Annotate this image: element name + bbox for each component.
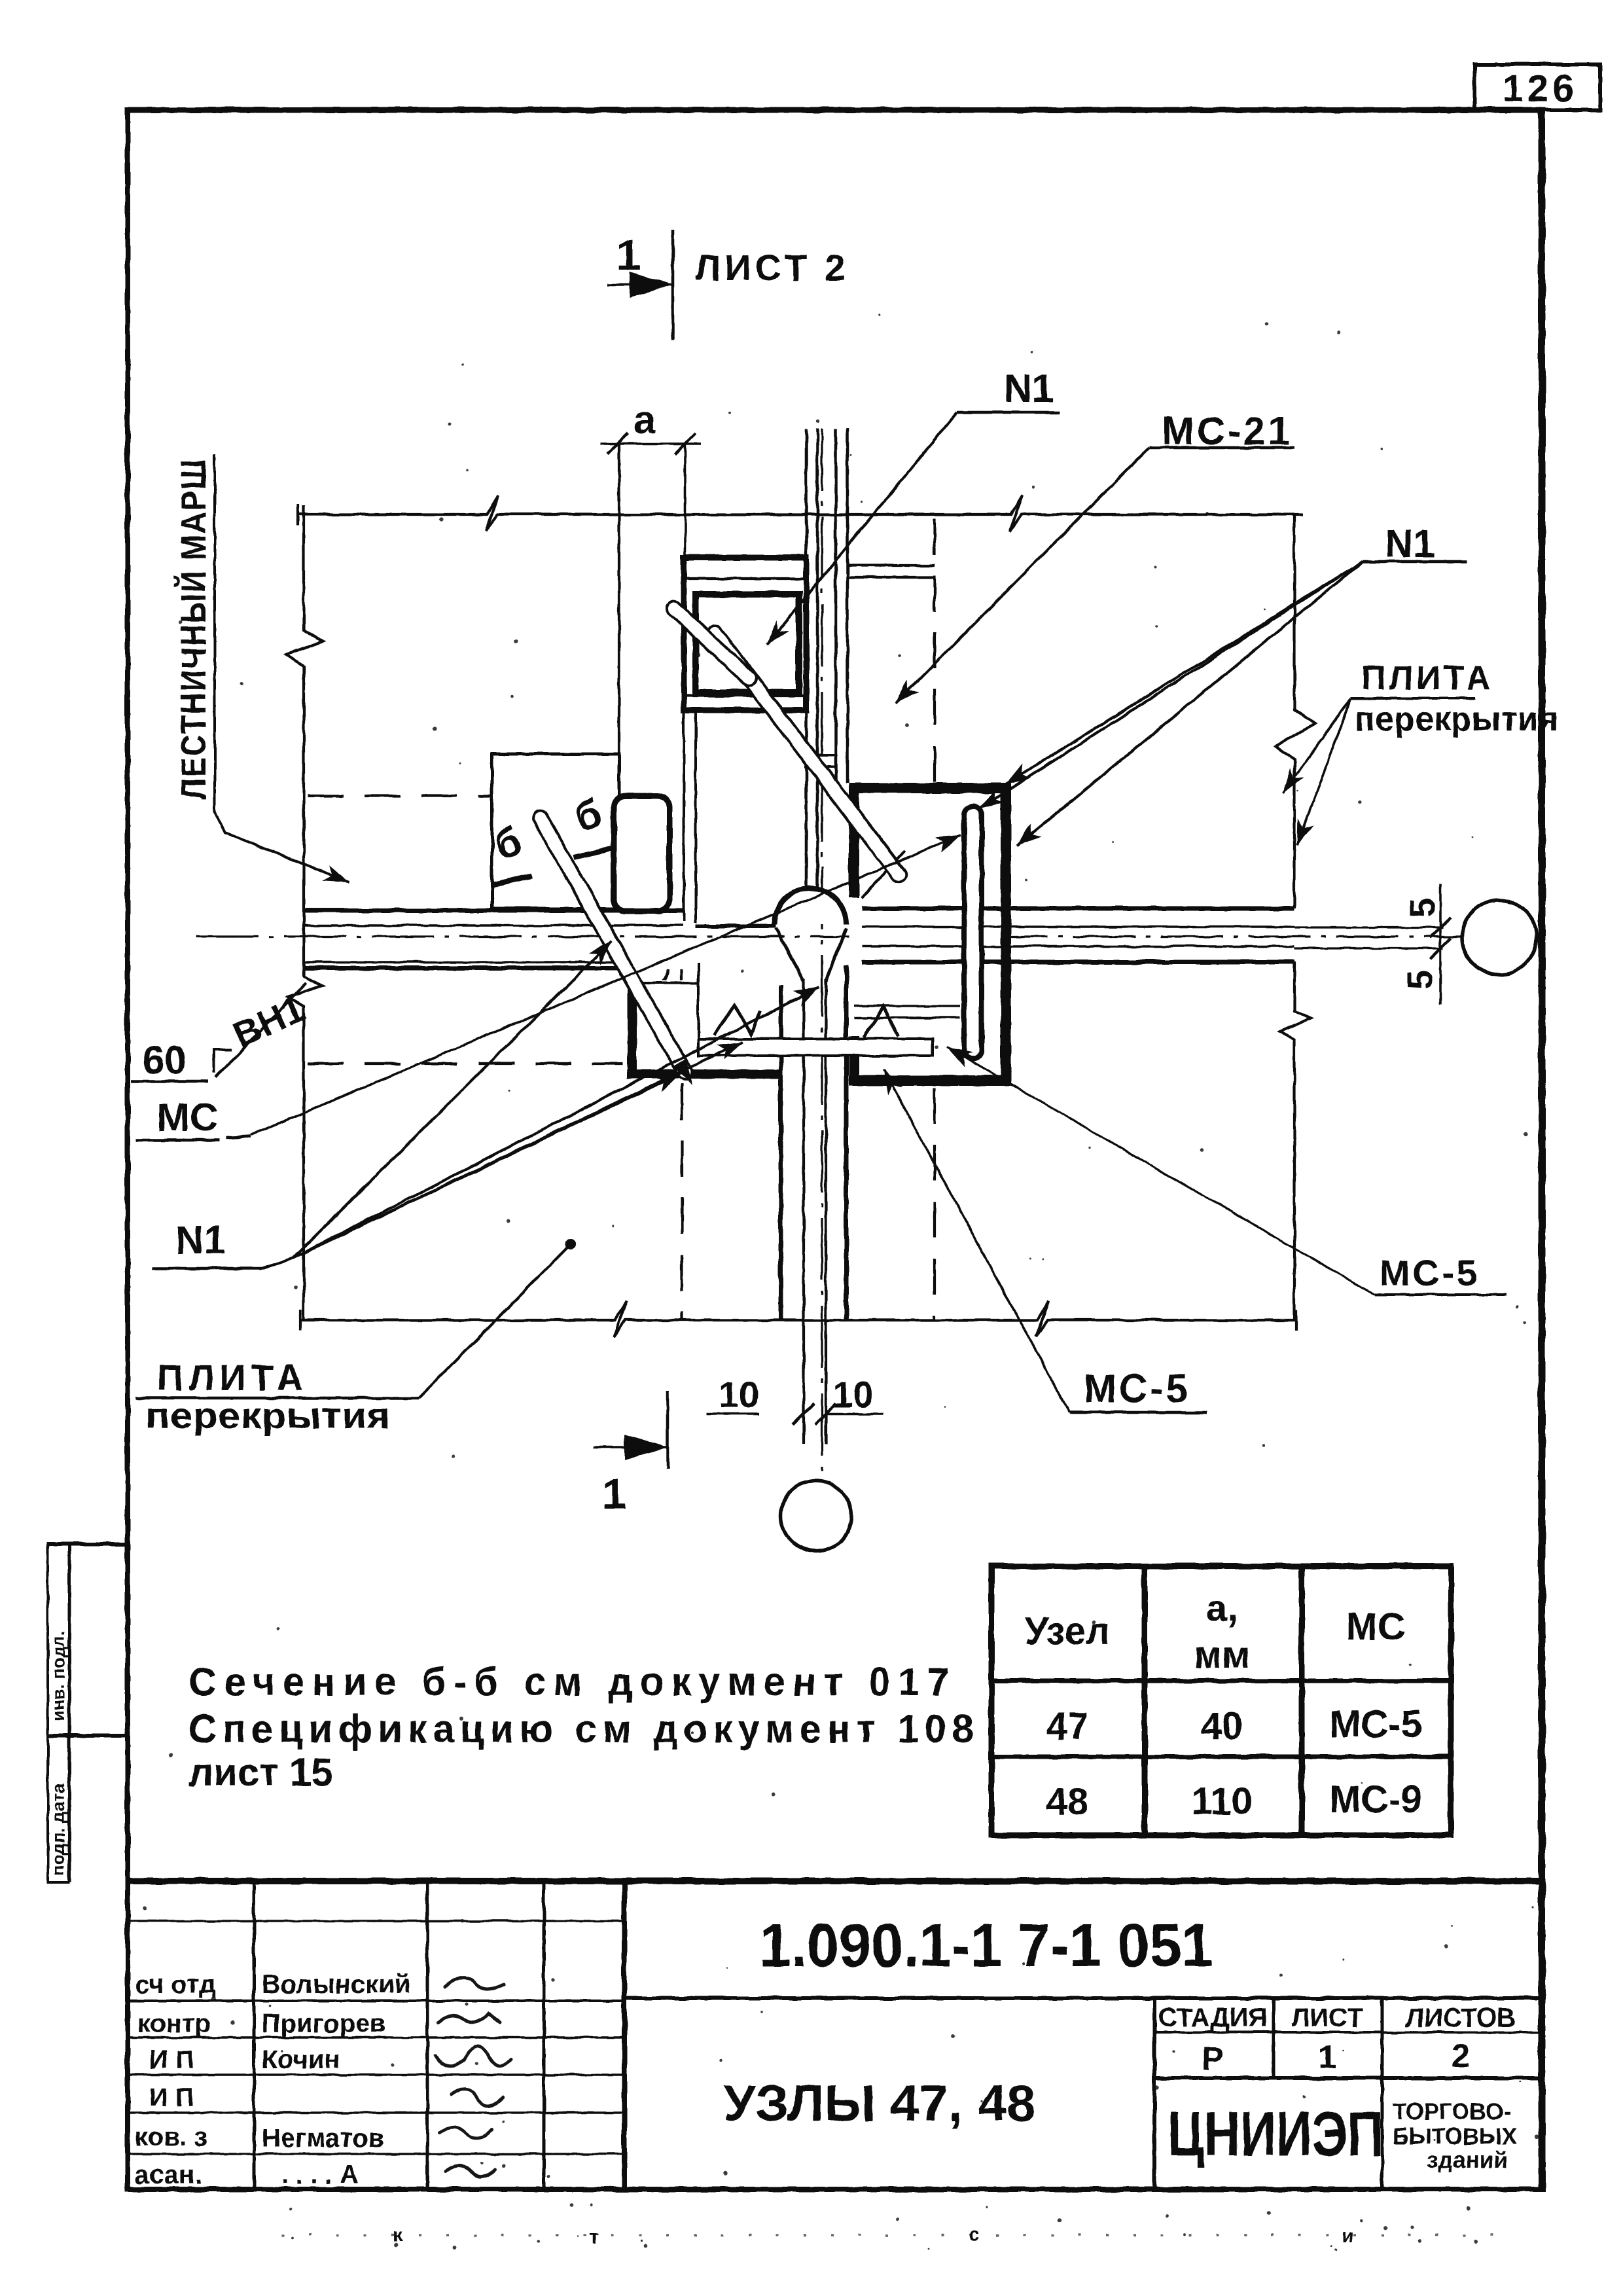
svg-text:зданий: зданий	[1427, 2147, 1507, 2173]
svg-text:Кочин: Кочин	[262, 2045, 340, 2074]
svg-text:. . . . А: . . . . А	[281, 2161, 359, 2189]
svg-text:Узел: Узел	[1025, 1610, 1110, 1653]
svg-text:Сечение б-б см документ 01: Сечение б-б см документ 017	[188, 1660, 949, 1704]
svg-text:ЛИСТ 2: ЛИСТ 2	[695, 247, 849, 288]
svg-text:ЦНИИЭП: ЦНИИЭП	[1168, 2099, 1383, 2169]
svg-text:60: 60	[143, 1038, 187, 1082]
svg-text:1: 1	[1318, 2039, 1336, 2075]
svg-text:10: 10	[832, 1374, 873, 1415]
svg-text:к: к	[393, 2225, 403, 2246]
svg-text:БЫТОВЫХ: БЫТОВЫХ	[1393, 2124, 1518, 2149]
svg-text:УЗЛЫ 47, 48: УЗЛЫ 47, 48	[723, 2074, 1036, 2132]
svg-text:сч отд: сч отд	[135, 1970, 215, 1999]
svg-text:48: 48	[1046, 1780, 1089, 1823]
svg-text:мм: мм	[1194, 1634, 1250, 1676]
svg-text:40: 40	[1201, 1705, 1243, 1748]
svg-text:лист 15: лист 15	[188, 1750, 333, 1794]
svg-text:МС-5: МС-5	[1380, 1252, 1480, 1293]
svg-text:ков. з: ков. з	[135, 2123, 207, 2151]
svg-text:10: 10	[719, 1374, 759, 1415]
svg-text:2: 2	[1452, 2037, 1470, 2074]
svg-text:ЛЕСТНИЧНЫЙ МАРШ: ЛЕСТНИЧНЫЙ МАРШ	[173, 458, 213, 800]
svg-text:ЛИСТОВ: ЛИСТОВ	[1406, 2003, 1516, 2032]
svg-text:т: т	[589, 2227, 599, 2248]
svg-text:1: 1	[602, 1469, 626, 1518]
svg-text:Волынский: Волынский	[262, 1970, 411, 1999]
svg-text:5: 5	[1403, 898, 1442, 918]
svg-text:Р: Р	[1202, 2040, 1223, 2077]
svg-text:110: 110	[1191, 1780, 1253, 1823]
svg-text:1.090.1-1 7-1 051: 1.090.1-1 7-1 051	[759, 1911, 1213, 1979]
svg-text:И П: И П	[149, 2045, 194, 2074]
svg-text:Негматов: Негматов	[262, 2124, 384, 2153]
svg-text:1: 1	[616, 230, 641, 279]
svg-text:МС: МС	[157, 1096, 218, 1139]
svg-text:ПЛИТА: ПЛИТА	[1361, 659, 1493, 697]
svg-text:126: 126	[1503, 67, 1578, 110]
svg-text:5: 5	[1400, 970, 1440, 990]
svg-text:контр: контр	[137, 2009, 211, 2038]
svg-text:МС-5: МС-5	[1084, 1367, 1190, 1410]
svg-text:СТАДИЯ: СТАДИЯ	[1158, 2003, 1267, 2032]
svg-text:подп. дата: подп. дата	[48, 1783, 68, 1876]
svg-text:перекрытия: перекрытия	[145, 1395, 391, 1436]
svg-text:инв. подл.: инв. подл.	[48, 1630, 68, 1721]
svg-text:Пригорев: Пригорев	[262, 2009, 386, 2038]
svg-text:ПЛИТА: ПЛИТА	[157, 1357, 308, 1398]
svg-text:N1: N1	[1385, 522, 1435, 565]
svg-text:47: 47	[1046, 1705, 1089, 1748]
svg-text:МС-5: МС-5	[1329, 1703, 1422, 1746]
svg-text:ЛИСТ: ЛИСТ	[1291, 2003, 1363, 2032]
svg-text:МС-9: МС-9	[1329, 1778, 1422, 1821]
svg-text:с: с	[969, 2224, 980, 2246]
svg-text:перекрытия: перекрытия	[1355, 700, 1558, 738]
svg-text:а,: а,	[1206, 1587, 1238, 1630]
svg-text:ТОРГОВО-: ТОРГОВО-	[1393, 2099, 1511, 2125]
svg-text:И П: И П	[149, 2083, 194, 2112]
svg-text:и: и	[1342, 2225, 1353, 2247]
svg-text:асан.: асан.	[135, 2161, 202, 2189]
svg-text:а: а	[633, 398, 656, 442]
svg-text:МС: МС	[1346, 1605, 1405, 1648]
svg-text:N1: N1	[1004, 367, 1054, 410]
svg-text:N1: N1	[175, 1218, 226, 1262]
